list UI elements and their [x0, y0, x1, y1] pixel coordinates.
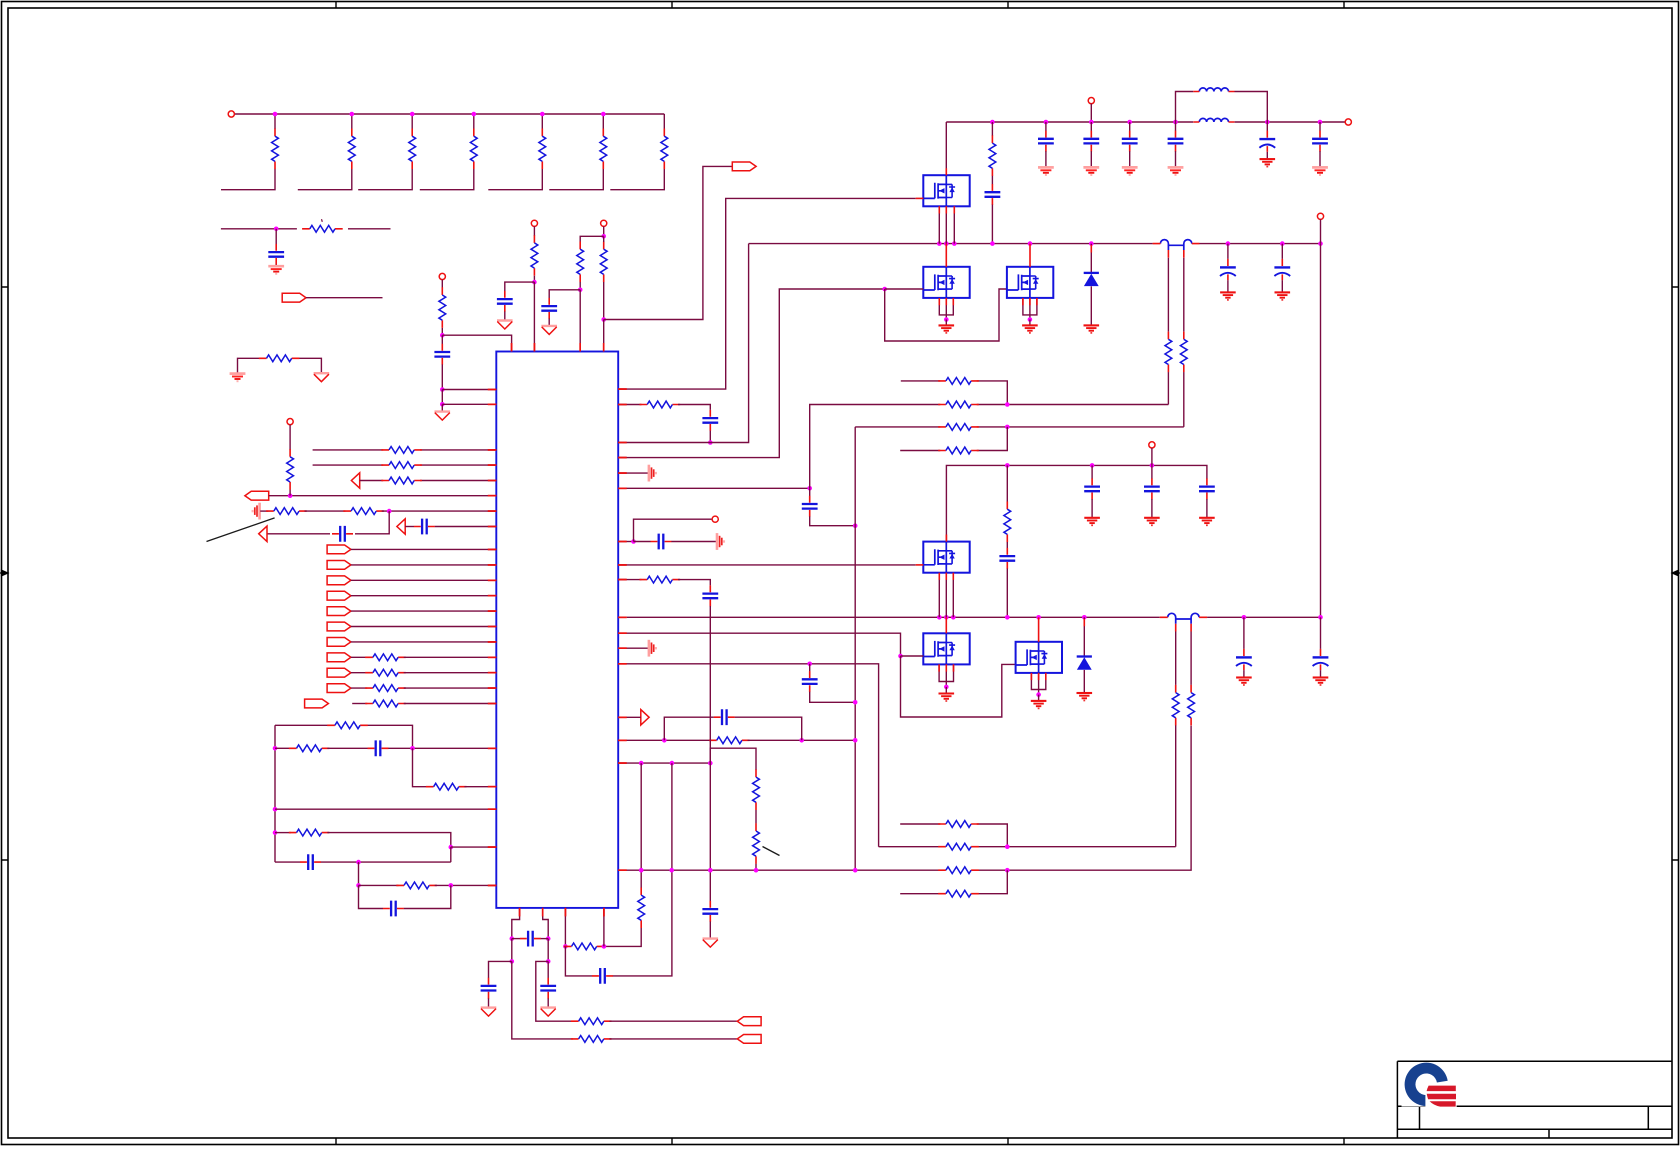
- wire bank resistor drops and L-returns: [221, 114, 664, 190]
- label tick: [321, 219, 324, 222]
- ground G82: [1038, 167, 1054, 175]
- wire row-449.9: [313, 449, 497, 451]
- wire Q2 drain: [945, 244, 947, 267]
- terminal J7 rail end: [1345, 119, 1351, 125]
- wire node B to IC pin L1: [442, 389, 496, 391]
- port P14 io mirrored: [305, 699, 329, 708]
- wire R32 to node D: [533, 276, 535, 282]
- junction dot row-862: [356, 860, 361, 865]
- power symbol PW77 down-triangle: [703, 939, 719, 948]
- capacitor C33: [541, 298, 557, 319]
- port P16 output: [737, 1017, 761, 1026]
- terminal J10: [1149, 442, 1155, 448]
- junction dots bus1: [937, 241, 942, 246]
- power symbol PW63 down-triangle: [540, 1008, 556, 1017]
- wire row-648: [618, 647, 648, 649]
- wire row-541 to dot: [618, 541, 633, 543]
- wire J9 to bus1: [1320, 219, 1322, 243]
- capacitor C45: [332, 526, 353, 542]
- wire node C down: [441, 404, 443, 411]
- resistor R73: [709, 737, 750, 744]
- wire cap drop row-229: [275, 229, 277, 245]
- node rail top-left bank: [231, 113, 664, 115]
- mosfet Q5: [923, 633, 969, 664]
- junction dot M-left: [273, 807, 278, 812]
- wire node B to node C: [441, 390, 443, 405]
- capacitor C83: [1083, 131, 1099, 152]
- wire IC bottom pin2 step: [543, 908, 549, 939]
- annotation line black: [207, 518, 275, 542]
- resistor R41: [381, 447, 422, 454]
- junction dot row-495.7: [288, 493, 293, 498]
- wire Q2-Q3 gate link: [885, 289, 1007, 341]
- inductor L1: [1193, 88, 1234, 92]
- wire Q1 sources to bus: [939, 206, 954, 243]
- inductor L2: [1193, 118, 1234, 122]
- resistor R46: [343, 508, 384, 515]
- resistor R33: [577, 241, 584, 282]
- wire row-633 to Q5 gate: [618, 633, 900, 656]
- wire top rail: [946, 121, 1345, 123]
- resistor R48: [365, 669, 406, 676]
- resistor R12 bank: [348, 129, 355, 170]
- wire Q2 sources join: [939, 298, 953, 320]
- capacitor C31: [434, 344, 450, 365]
- wire mid rail: [946, 465, 1207, 541]
- wire row-946 a: [564, 945, 567, 947]
- resistor R22: [259, 355, 300, 362]
- wire Q5 gate stub: [901, 655, 924, 657]
- wire node G to IC pin top4: [603, 320, 605, 352]
- resistor R47: [365, 654, 406, 661]
- junction dots top rail: [990, 120, 995, 125]
- wire C91 gnd: [1227, 280, 1229, 291]
- wire bp4 branch left: [536, 961, 573, 1021]
- wire x710 link: [709, 617, 711, 901]
- resistor R74: [753, 769, 760, 810]
- capacitor C63: [540, 978, 556, 999]
- resistor R16 bank: [600, 129, 607, 170]
- wire Q6 sources join: [1031, 673, 1045, 695]
- junction dot bp2: [546, 936, 551, 941]
- resistor R81: [989, 135, 996, 176]
- resistor R63: [571, 1036, 612, 1043]
- wire row L1: [275, 725, 413, 748]
- wire port P1 net: [306, 297, 383, 299]
- annotation line black 2: [763, 847, 780, 856]
- wire R66 up to row-870: [640, 870, 642, 887]
- resistor R51: [327, 722, 368, 729]
- junction dot row Q: [1005, 844, 1010, 849]
- terminal J4: [601, 220, 607, 226]
- junction dot Q2 gate: [882, 287, 887, 292]
- wire cap row-938 b: [541, 938, 549, 940]
- junction dot node D: [532, 280, 537, 285]
- power symbol PW32 down-triangle: [497, 321, 513, 330]
- capacitor C86: [1312, 131, 1328, 152]
- wire row-740 b: [748, 739, 856, 741]
- power symbol PW62 down-triangle: [481, 1008, 497, 1017]
- mosfet Q2: [923, 267, 969, 298]
- wire port row-580.3: [351, 579, 496, 581]
- wire port row-703.5 b: [404, 703, 497, 705]
- wire D1 to gnd: [1090, 286, 1092, 324]
- wire Q5 source gnd: [945, 687, 947, 693]
- junction dot row-740-b: [799, 738, 804, 743]
- wire bus2 cap2 drop: [1320, 617, 1322, 649]
- wire C72 to node I: [810, 516, 856, 525]
- capacitor C97 polarized: [1236, 649, 1252, 670]
- junction dot Q2 source: [944, 317, 949, 322]
- ground G83: [1083, 167, 1099, 175]
- capacitor C21: [268, 244, 284, 265]
- ground G4: [939, 694, 955, 702]
- wire row-511.1 c: [382, 510, 497, 512]
- capacitor C82: [1038, 131, 1054, 152]
- terminal J9: [1317, 213, 1323, 219]
- power symbol PW22 down-triangle: [314, 373, 330, 382]
- wire row-488 to node H: [618, 487, 810, 489]
- resistor R64: [571, 1018, 612, 1025]
- wire row-526.5 b: [435, 526, 497, 528]
- mosfet Q1: [923, 175, 969, 206]
- mosfet Q3: [1007, 267, 1053, 298]
- wire R81 to C81: [991, 176, 993, 184]
- wire C64 to x672: [613, 870, 672, 976]
- wire port row-657.3 a: [351, 656, 367, 658]
- port P7 io: [327, 591, 351, 600]
- wire Q6 drain: [1038, 617, 1040, 642]
- wire row L2 a: [275, 747, 291, 749]
- wire node F branch to C33: [549, 290, 580, 299]
- wire vertical x275: [274, 725, 276, 862]
- capacitor C52: [368, 740, 389, 756]
- wire row-473: [618, 472, 648, 474]
- resistor R91: [1172, 685, 1179, 726]
- capacitor C64: [592, 968, 613, 984]
- wire Q3 sources join: [1023, 298, 1037, 320]
- port P8 io: [327, 607, 351, 616]
- wire Q1 gate stub: [916, 197, 924, 199]
- wire cap to gnd rail-2: [1129, 151, 1131, 166]
- wire node F to IC pin top3: [579, 290, 581, 352]
- port P12 io: [327, 668, 351, 677]
- resistor R86: [938, 424, 979, 431]
- frame center arrow left: [0, 570, 8, 576]
- wire row-579.6 b: [678, 580, 710, 586]
- ground G2: [1022, 325, 1038, 333]
- wire RC loop row-908: [359, 885, 384, 908]
- wire x358 link: [358, 862, 360, 885]
- wire C81 to bus: [991, 205, 993, 244]
- resistor R75: [753, 823, 760, 864]
- wire net row-358: [238, 358, 322, 373]
- red stubs power devices: [939, 168, 1091, 680]
- junction dot row-663.8: [807, 662, 812, 667]
- wire inductor bypass loop: [1176, 92, 1268, 123]
- resistor R43: [381, 477, 422, 484]
- wire node C to IC pin L2: [442, 403, 496, 405]
- capacitor C95: [1199, 478, 1215, 499]
- resistor R13 bank: [409, 129, 416, 170]
- wire R44 to row-495.7: [289, 490, 291, 496]
- resistor R11 bank: [272, 129, 279, 170]
- wire row-885 a: [359, 884, 399, 886]
- junction dot node I2: [853, 700, 858, 705]
- ground G91: [1220, 292, 1236, 300]
- wire row-442 to bus riser: [618, 244, 748, 443]
- wire R88 to C96: [1006, 542, 1008, 548]
- diode D1: [1084, 273, 1099, 286]
- resistor R71: [640, 401, 681, 408]
- wire L2 to L3: [413, 748, 429, 786]
- capacitor C74: [702, 585, 718, 606]
- wire R91 to rowQ: [1175, 725, 1177, 846]
- wire port row-595.7: [351, 595, 496, 597]
- junction dot node B: [440, 387, 445, 392]
- ground G92: [1275, 292, 1291, 300]
- terminal J8: [1088, 98, 1094, 104]
- capacitor C93: [1084, 478, 1100, 499]
- wire cap to gnd rail-4: [1319, 151, 1321, 166]
- frame center arrow right: [1672, 570, 1680, 576]
- wire R31 to node A: [441, 328, 443, 335]
- mosfet Q6: [1016, 642, 1062, 673]
- port P4 io: [327, 545, 351, 554]
- wire port row-672.7 b: [404, 672, 497, 674]
- ground G73 bars-right: [717, 533, 724, 550]
- capacitor C32: [497, 291, 513, 312]
- wire mid cap0 gnd: [1091, 499, 1093, 517]
- wire bp3 branch left: [489, 961, 512, 978]
- wire node A to IC pin top1: [442, 335, 511, 351]
- wire R81 drop: [991, 122, 993, 136]
- resistor R34: [600, 241, 607, 282]
- capacitor C77: [702, 901, 718, 922]
- capacitor C84: [1122, 131, 1138, 152]
- power symbol PW33 down-triangle: [541, 326, 557, 335]
- resistor R65: [564, 943, 605, 950]
- wire node E branch left: [580, 236, 604, 242]
- wire row Q: [879, 846, 1176, 848]
- terminal J5: [287, 419, 293, 425]
- ground G95: [1199, 518, 1215, 526]
- port P11 io: [327, 653, 351, 662]
- wire choke2 tap2 chain: [1190, 632, 1192, 685]
- ground G44 bars-left: [253, 503, 260, 520]
- ground G93: [1084, 518, 1100, 526]
- capacitor C81: [985, 184, 1001, 205]
- wire cap to gnd rail-0: [1045, 151, 1047, 166]
- wire node G to port P2: [604, 166, 733, 319]
- wire J5 to R44: [289, 425, 291, 450]
- wire row-579.6 a: [618, 579, 641, 581]
- junction dot Q5 gate: [898, 654, 903, 659]
- resistor R17 bank: [661, 129, 668, 170]
- wire row-404.5 a: [618, 404, 641, 406]
- resistor R42: [381, 462, 422, 469]
- wire Q2 source to gnd: [945, 320, 947, 325]
- wire R83 to rowC: [1183, 372, 1185, 427]
- junction dots bank rail: [273, 112, 278, 117]
- wire row-847 to IC: [451, 846, 497, 848]
- wire vertical x855: [854, 427, 856, 870]
- port P2 output: [732, 162, 756, 171]
- wire D1 anode: [1090, 244, 1092, 273]
- wire row-511.1 b: [305, 510, 346, 512]
- wire C31 to node B: [441, 364, 443, 389]
- resistor R21: [302, 225, 343, 232]
- capacitor C87 polarized: [1259, 131, 1275, 152]
- wire R75 to row-870: [755, 864, 757, 870]
- wire C98 gnd: [1320, 670, 1322, 677]
- wire row-541 c: [671, 541, 716, 543]
- wire mid cap2 gnd: [1206, 499, 1208, 517]
- junction dot bm1: [563, 944, 568, 949]
- wire cap to gnd rail-1: [1090, 151, 1092, 166]
- wire bp3 to port row: [512, 961, 573, 1039]
- wire Q5 sources join: [939, 664, 953, 687]
- wire bp2 down: [547, 939, 549, 962]
- capacitor C55: [383, 901, 404, 917]
- wire row-526.5 a: [405, 526, 414, 528]
- port P5 io: [327, 561, 351, 570]
- wire R33 to node F: [579, 282, 581, 290]
- mosfet Q4: [923, 542, 969, 573]
- resistor R95: [938, 890, 979, 897]
- wire row-946 b: [602, 928, 641, 946]
- wire bp1 down: [511, 939, 513, 962]
- wire Q4 sources to bus2: [939, 573, 953, 618]
- resistor R83: [1180, 332, 1187, 373]
- wire Q5 drain: [945, 617, 947, 633]
- wire choke2 tap1 chain: [1175, 632, 1177, 685]
- ground G6: [1077, 693, 1093, 701]
- port P1 output: [282, 293, 306, 302]
- wire D2 anode: [1083, 617, 1085, 656]
- ground G22: [230, 374, 246, 382]
- wire R34 to node G: [603, 282, 605, 320]
- terminal J1 bank input: [228, 111, 234, 117]
- capacitor C76: [714, 709, 735, 725]
- wire Q5-Q6 gate link: [901, 656, 1016, 717]
- wire row-511 branch down: [388, 511, 389, 534]
- wire row A: [901, 381, 1008, 405]
- junction dot node A: [440, 333, 445, 338]
- capacitor C61: [520, 931, 541, 947]
- resistor R54: [289, 829, 330, 836]
- wire rail to Q1 drain: [945, 122, 947, 176]
- wire x641 link: [640, 763, 642, 870]
- wire node H down: [809, 488, 811, 496]
- wire node N-right down: [450, 847, 452, 862]
- wire mid cap0 drop: [1091, 465, 1093, 478]
- junction dot L2-right: [410, 746, 415, 751]
- diode D2: [1077, 657, 1092, 670]
- port arrow A75 right-triangle: [641, 710, 649, 725]
- wire row-511.1 a: [260, 510, 268, 512]
- wire node H up to row B: [810, 405, 941, 489]
- port P6 io: [327, 576, 351, 585]
- wire row-740 a: [618, 739, 711, 741]
- port P13 io: [327, 684, 351, 693]
- wire port row-657.3 b: [404, 656, 497, 658]
- junction dots bus2: [937, 615, 942, 620]
- wire row-480.5: [360, 480, 497, 482]
- wire row-457 to Q2 gate riser: [618, 289, 885, 458]
- resistor R76: [938, 867, 979, 874]
- choke L4 common-mode: [1168, 613, 1199, 623]
- wire row-885 b: [435, 884, 497, 886]
- wire cap to gnd rail-3: [1175, 151, 1177, 166]
- capacitor C96: [999, 548, 1015, 569]
- power symbol PW31 down-triangle: [435, 412, 451, 421]
- wire right riser x1320: [1320, 244, 1322, 618]
- wire R64 to port P16: [609, 1020, 737, 1022]
- junction dot node F: [578, 288, 583, 293]
- IC U1 pin stubs: [488, 343, 627, 916]
- IC U1 main controller: [496, 352, 618, 908]
- wire C33 to PW33: [548, 319, 550, 326]
- capacitor C75: [802, 671, 818, 692]
- terminal J3: [531, 220, 537, 226]
- wire C92 gnd: [1281, 280, 1283, 291]
- junction dot bp3: [510, 959, 515, 964]
- capacitor C91 polarized: [1220, 259, 1236, 280]
- wire row B: [977, 404, 1169, 406]
- wire cap drop rail-0: [1045, 122, 1047, 131]
- wire C87 to gnd: [1266, 152, 1268, 158]
- wire C63 to gnd: [547, 998, 549, 1007]
- junction dot Q3 source: [1028, 317, 1033, 322]
- resistor R72: [640, 576, 681, 583]
- wire row-495.7: [269, 495, 497, 497]
- resistor R14 bank: [470, 129, 477, 170]
- wire R74-R75 link: [755, 810, 757, 823]
- wire C75 to node I2: [810, 692, 856, 703]
- wire node E to R34: [603, 236, 605, 242]
- IC U1 pin stub overlay: [488, 343, 627, 916]
- port P10 io: [327, 638, 351, 647]
- wire row P: [900, 824, 1007, 847]
- wire J3 to R32: [533, 226, 535, 236]
- junction dot row-511.1: [387, 509, 392, 514]
- wire bus2 cap1 drop: [1243, 617, 1245, 649]
- wire row-404.5 b: [678, 405, 710, 410]
- ground G74 bars-right: [649, 640, 656, 657]
- ground G3: [1084, 325, 1100, 333]
- port P3 input: [245, 491, 269, 500]
- junction dot row B: [1005, 402, 1010, 407]
- wire port row-564.9: [351, 564, 496, 566]
- port P15 output: [737, 1035, 761, 1044]
- wire row-663.8 to Q-link: [618, 664, 878, 847]
- wire row N b: [327, 833, 451, 848]
- wire port row-626.5: [351, 626, 496, 628]
- ground G5: [1031, 701, 1047, 709]
- wire cap row-862 a: [275, 861, 300, 863]
- port arrow A46 left-triangle: [397, 519, 405, 534]
- logo Quanta: [1402, 1062, 1457, 1106]
- wire row-541 up to J6: [634, 519, 713, 541]
- capacitor C98 polarized: [1313, 649, 1329, 670]
- wire row L2 b: [327, 747, 367, 749]
- resistor R44: [287, 449, 294, 490]
- junction dot node E: [601, 234, 606, 239]
- ground G87: [1260, 159, 1276, 167]
- wire bus cap1 drop: [1227, 244, 1229, 259]
- wire cap drop rail-3: [1175, 122, 1177, 131]
